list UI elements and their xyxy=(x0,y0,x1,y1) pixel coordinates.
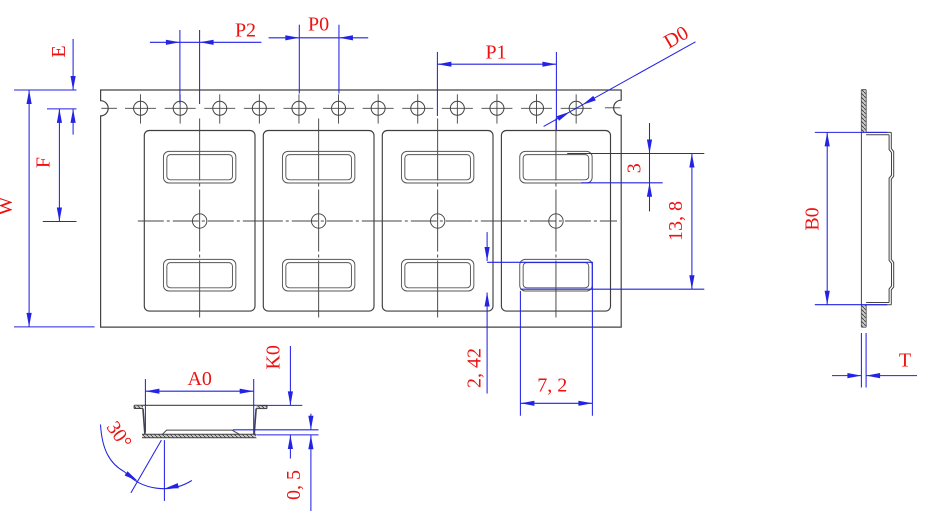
svg-text:K0: K0 xyxy=(263,345,285,369)
svg-text:7, 2: 7, 2 xyxy=(537,375,567,397)
svg-text:T: T xyxy=(899,350,911,372)
svg-text:P1: P1 xyxy=(485,41,506,63)
svg-text:E: E xyxy=(48,45,70,57)
svg-text:A0: A0 xyxy=(187,368,211,390)
svg-text:3: 3 xyxy=(623,163,645,173)
svg-text:13, 8: 13, 8 xyxy=(665,201,687,241)
svg-text:F: F xyxy=(33,157,55,168)
svg-text:W: W xyxy=(0,196,16,215)
svg-text:0, 5: 0, 5 xyxy=(283,470,305,500)
svg-text:2, 42: 2, 42 xyxy=(464,348,486,388)
svg-text:P0: P0 xyxy=(308,13,329,35)
svg-text:B0: B0 xyxy=(801,207,823,230)
svg-text:P2: P2 xyxy=(235,19,256,41)
